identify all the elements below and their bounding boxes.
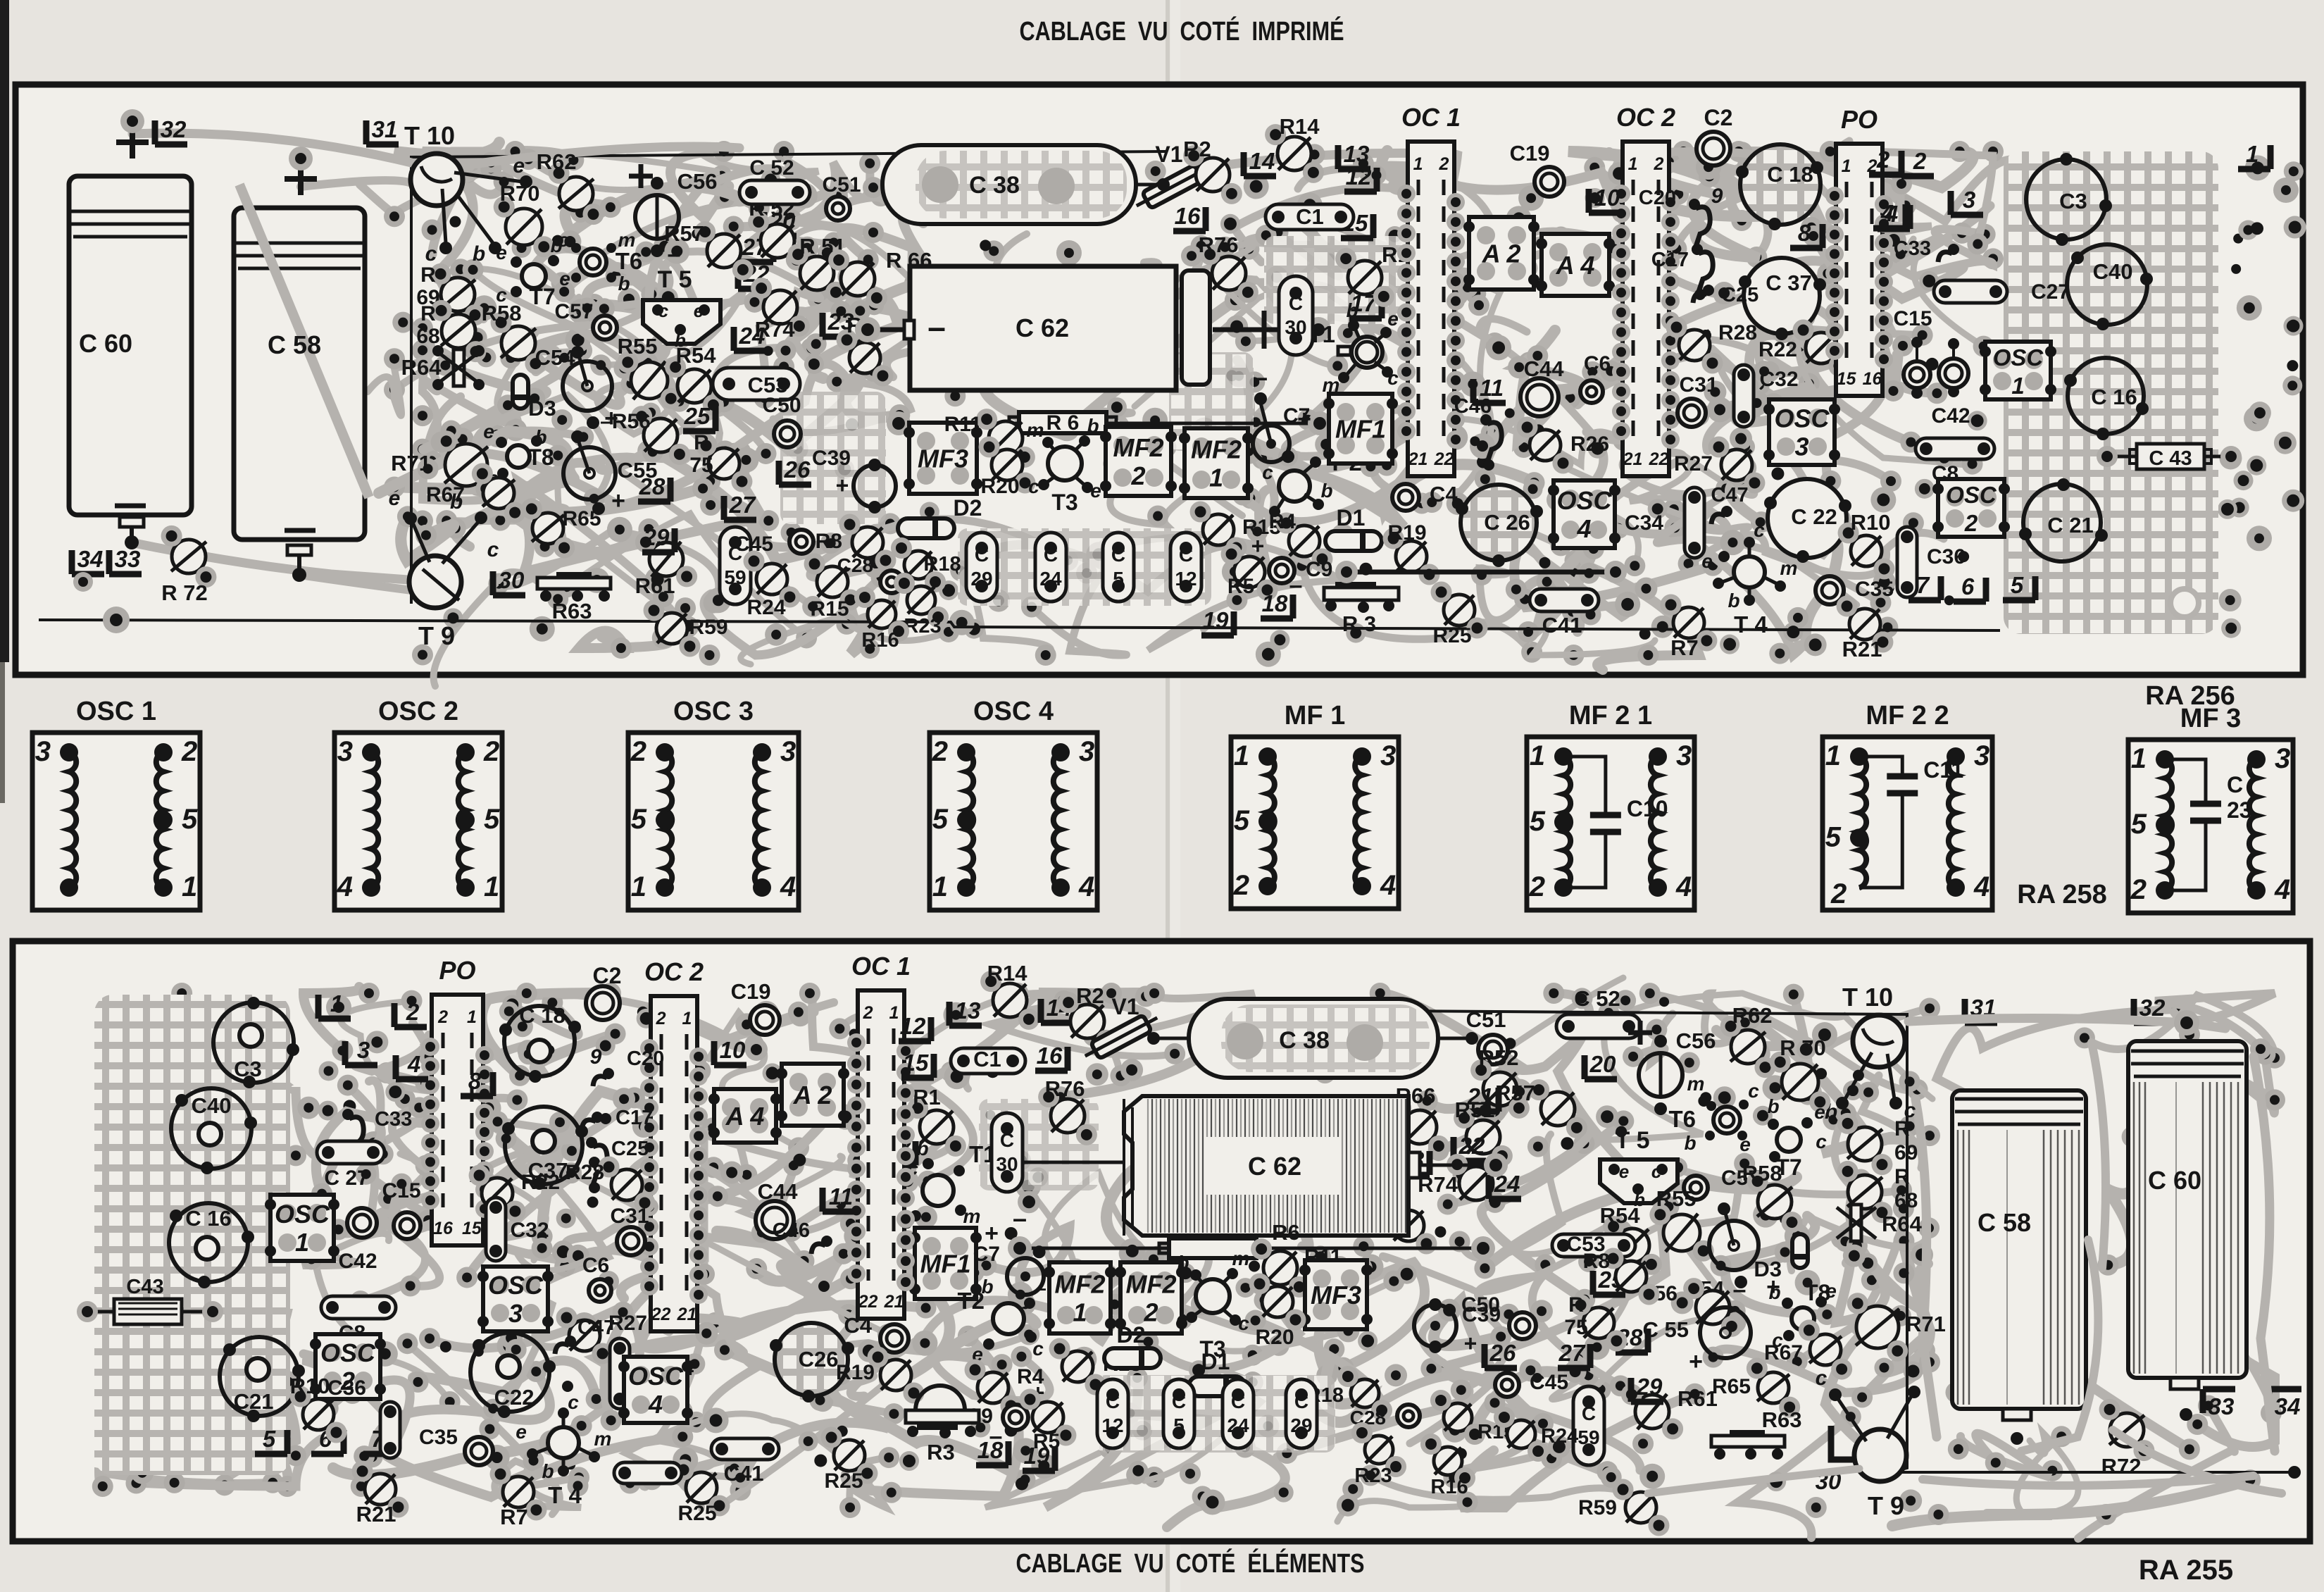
svg-text:29: 29	[1636, 1374, 1663, 1400]
capacitor C16 bottom	[169, 1203, 248, 1282]
pad	[781, 209, 802, 230]
pad	[839, 1497, 861, 1518]
pad	[1226, 421, 1247, 442]
capacitor C53	[713, 368, 800, 400]
capacitor C42 bottom	[347, 1208, 377, 1238]
wire	[1554, 993, 1668, 1207]
wire	[812, 993, 973, 1181]
pad	[1442, 425, 1468, 450]
pad	[253, 1162, 274, 1183]
terminal tab 12	[1344, 168, 1377, 192]
svg-text:+: +	[1464, 1331, 1478, 1356]
wire	[970, 578, 1051, 655]
diode D1 bottom	[1189, 1376, 1245, 1396]
pad	[1144, 983, 1165, 1004]
wire	[366, 1174, 712, 1262]
diode D2 bottom	[1104, 1348, 1161, 1368]
resistor R58	[501, 326, 535, 360]
pad	[274, 1264, 284, 1274]
pad	[1411, 492, 1432, 514]
wire	[734, 163, 875, 231]
pad	[1766, 1472, 1786, 1491]
oscillator module OSC3 bottom	[483, 1267, 548, 1331]
capacitor C7	[1253, 425, 1289, 462]
pad	[1518, 185, 1544, 211]
pad	[871, 1088, 897, 1114]
pad	[422, 219, 443, 240]
pad	[789, 1005, 811, 1026]
wire	[851, 560, 894, 654]
svg-text:C31: C31	[610, 1205, 649, 1228]
svg-text:T 5: T 5	[657, 266, 692, 293]
svg-text:4: 4	[648, 1390, 663, 1419]
svg-text:m: m	[963, 1205, 981, 1227]
pad	[713, 391, 735, 412]
pad	[319, 1061, 339, 1081]
wire	[1106, 1155, 1308, 1262]
pad	[880, 1292, 902, 1314]
pad	[1648, 499, 1668, 518]
pad	[944, 385, 966, 406]
terminal tab 7c	[363, 1430, 396, 1454]
pad	[1457, 1491, 1478, 1512]
capacitor C55 bottom	[1700, 1307, 1751, 1358]
wire	[393, 1139, 580, 1231]
pad	[1585, 1335, 1610, 1360]
svg-text:C36: C36	[327, 1376, 366, 1400]
svg-text:2: 2	[1130, 461, 1145, 490]
pad	[714, 1339, 735, 1360]
pad	[638, 518, 659, 540]
pad	[1011, 1346, 1032, 1367]
wire	[1618, 993, 1932, 1099]
capacitor C24 capsule	[1035, 533, 1066, 602]
pad	[1698, 1095, 1709, 1107]
wire	[1850, 1180, 1922, 1311]
pad	[645, 567, 670, 592]
pad	[566, 577, 577, 588]
wire	[310, 1086, 382, 1260]
capacitor C56	[635, 195, 679, 239]
pad	[1383, 1271, 1404, 1292]
pad	[1782, 275, 1802, 295]
capacitor C54	[563, 361, 612, 411]
svg-text:3: 3	[780, 736, 796, 767]
svg-text:68: 68	[1894, 1189, 1918, 1212]
pad	[2283, 316, 2303, 336]
pad	[532, 1226, 553, 1247]
pad	[496, 1128, 517, 1149]
svg-text:C34: C34	[1625, 511, 1663, 535]
wire	[725, 1350, 1025, 1479]
terminal tab 13	[1338, 145, 1370, 169]
terminal tab 7	[1908, 576, 1941, 600]
pad	[1713, 1086, 1736, 1109]
pad	[1332, 523, 1354, 546]
svg-text:22: 22	[1649, 449, 1669, 469]
capacitor C38 bottom	[1189, 999, 1438, 1078]
wire	[473, 270, 679, 402]
wire	[170, 1314, 288, 1486]
pad	[1539, 240, 1558, 259]
pad	[1975, 224, 1996, 245]
resistor R74 bottom	[1459, 1167, 1493, 1200]
svg-text:2: 2	[932, 736, 948, 767]
pad	[801, 338, 822, 359]
capacitor C18 bottom	[504, 1006, 575, 1076]
pad	[235, 1229, 255, 1249]
resistor R23	[907, 586, 935, 614]
svg-text:OC 2: OC 2	[644, 957, 704, 986]
pad	[749, 197, 770, 218]
pad	[1751, 511, 1772, 533]
pad	[1608, 1014, 1629, 1035]
pad	[1893, 1198, 1914, 1219]
svg-text:5: 5	[1173, 1414, 1185, 1436]
wire	[500, 451, 686, 521]
pad	[311, 1183, 332, 1205]
pad	[480, 152, 501, 173]
terminal tab 22b	[1454, 1137, 1486, 1161]
capacitor C4 bottom	[880, 1324, 908, 1352]
pad	[468, 476, 487, 496]
svg-text:C20: C20	[627, 1047, 664, 1070]
pad	[456, 1267, 477, 1288]
pad	[512, 1016, 533, 1037]
wire	[506, 1138, 608, 1299]
wire	[2239, 1055, 2275, 1114]
wire	[1513, 1219, 1634, 1359]
pad	[1563, 497, 1588, 523]
pad	[266, 1019, 276, 1028]
pad	[1385, 226, 1405, 246]
wire	[1429, 237, 1561, 326]
svg-text:8: 8	[468, 1068, 482, 1094]
svg-text:C50: C50	[762, 394, 801, 417]
pad	[686, 1412, 707, 1433]
svg-text:C9: C9	[1306, 558, 1332, 581]
wire	[1107, 537, 1342, 650]
pad	[1982, 248, 2004, 269]
svg-text:1: 1	[2011, 373, 2024, 399]
pad	[464, 462, 489, 487]
pad	[949, 610, 975, 635]
pad	[542, 992, 563, 1013]
pad	[1725, 1312, 1746, 1333]
pad	[600, 983, 621, 1004]
svg-text:C28: C28	[837, 554, 873, 576]
terminal tab 11c	[823, 1188, 855, 1212]
pad	[1958, 551, 1969, 562]
pad	[1588, 439, 1608, 459]
pad	[2096, 1504, 2117, 1525]
wire	[449, 339, 582, 444]
wire	[1522, 230, 1617, 268]
wire	[1813, 236, 1888, 508]
wire	[1647, 163, 1758, 220]
capacitor C9 bottom	[1003, 1405, 1028, 1430]
pad	[1127, 1367, 1148, 1388]
pad	[1744, 390, 1770, 416]
pad	[694, 1264, 715, 1285]
pad	[1658, 151, 1680, 173]
transistor T6	[580, 249, 606, 275]
pad	[1578, 563, 1599, 584]
pad	[635, 242, 656, 263]
capacitor C62 bottom (element side)	[1124, 1096, 1408, 1236]
svg-text:OSC 4: OSC 4	[973, 697, 1054, 726]
pad	[1508, 356, 1530, 378]
pad	[1085, 1296, 1096, 1307]
svg-text:C22: C22	[494, 1385, 535, 1410]
pad	[1477, 456, 1489, 468]
pad	[1728, 141, 1749, 162]
pad	[285, 1206, 306, 1227]
OSC 3 primary coil	[665, 752, 672, 888]
svg-text:30: 30	[996, 1153, 1018, 1175]
svg-text:b: b	[473, 242, 485, 266]
pad	[2238, 220, 2258, 240]
pad	[1120, 1059, 1143, 1081]
pad	[558, 230, 581, 253]
ground-plane grid small center	[1096, 1375, 1335, 1453]
pad	[497, 394, 518, 416]
pad	[1297, 192, 1323, 218]
wire	[1801, 194, 1993, 277]
svg-text:C40: C40	[192, 1093, 232, 1118]
pad	[551, 272, 573, 293]
svg-text:69: 69	[1894, 1141, 1918, 1164]
pad	[547, 445, 568, 466]
svg-text:C56: C56	[677, 169, 718, 194]
resistor R52 bottom	[1483, 1072, 1517, 1106]
wire	[1790, 1217, 1929, 1271]
svg-text:R11: R11	[944, 413, 982, 436]
svg-text:19: 19	[1203, 607, 1229, 633]
pad	[1574, 1289, 1595, 1310]
svg-text:26: 26	[784, 456, 811, 483]
svg-text:CABLAGE VU COTÉ IMPRIMÉ: CABLAGE VU COTÉ IMPRIMÉ	[1020, 15, 1344, 46]
pad	[1537, 571, 1558, 592]
pad	[547, 1426, 568, 1448]
pad	[1880, 471, 1901, 492]
pad	[1358, 161, 1380, 182]
svg-text:m: m	[618, 229, 636, 251]
terminal tab 30	[493, 571, 525, 595]
svg-text:D1: D1	[1201, 1349, 1230, 1374]
wire	[1742, 151, 1973, 187]
pad	[791, 459, 811, 478]
wire	[1224, 1281, 1394, 1351]
pad	[1135, 985, 1156, 1007]
svg-text:e: e	[483, 421, 494, 442]
wire	[1299, 216, 1500, 433]
pad	[2261, 1403, 2282, 1424]
pad	[1854, 1445, 1875, 1466]
svg-text:22: 22	[1458, 1133, 1485, 1159]
svg-text:1: 1	[1842, 156, 1851, 176]
svg-text:OSC: OSC	[628, 1362, 684, 1391]
pad	[416, 1155, 437, 1176]
wire	[1633, 1014, 1673, 1063]
pad	[1154, 370, 1175, 391]
pad	[1617, 1176, 1627, 1186]
pad	[1659, 997, 1669, 1007]
pad	[1528, 1136, 1549, 1157]
svg-text:CABLAGE VU COTÉ ÉLÉMENTS: CABLAGE VU COTÉ ÉLÉMENTS	[1016, 1548, 1365, 1579]
svg-text:e: e	[1619, 1161, 1629, 1182]
svg-text:75: 75	[689, 454, 713, 477]
wire	[1798, 317, 1970, 466]
pad	[723, 443, 744, 464]
pad	[765, 623, 787, 646]
wire	[579, 631, 669, 649]
svg-text:33: 33	[115, 546, 141, 572]
pad	[2219, 589, 2242, 611]
wire	[792, 533, 873, 633]
capacitor C37	[1744, 258, 1820, 334]
pad	[654, 235, 676, 258]
pad	[436, 510, 457, 531]
svg-text:+: +	[611, 487, 625, 514]
pad	[277, 1476, 298, 1497]
pad	[1619, 454, 1640, 475]
pad	[1750, 148, 1771, 169]
wire	[1568, 151, 1780, 216]
OSC 4 secondary coil	[1054, 752, 1061, 888]
pad	[642, 441, 663, 462]
IF transformer module MF3	[909, 423, 977, 494]
pad	[641, 284, 662, 305]
terminal tab 4d	[1951, 191, 1983, 215]
pad	[1501, 527, 1523, 548]
pad	[1468, 294, 1489, 316]
wire	[1563, 432, 1727, 534]
pad	[1256, 1414, 1279, 1437]
wire	[2107, 1137, 2137, 1265]
svg-text:m: m	[1780, 557, 1798, 579]
wire	[1884, 1241, 1930, 1373]
svg-text:4: 4	[1576, 514, 1591, 543]
pad	[1071, 1347, 1097, 1372]
pad	[2247, 526, 2272, 551]
pad	[1881, 228, 1906, 253]
pad	[1823, 1109, 1844, 1130]
svg-text:C: C	[1289, 292, 1303, 314]
diode D1	[1325, 531, 1382, 551]
resistor R76	[1212, 256, 1246, 290]
svg-text:12: 12	[900, 1013, 926, 1039]
svg-text:–: –	[1254, 363, 1268, 392]
capacitor C2	[1697, 132, 1730, 166]
svg-text:R70: R70	[500, 181, 540, 206]
pad	[827, 186, 848, 207]
oscillator module OSC4	[1554, 480, 1615, 548]
pad	[485, 1445, 510, 1470]
pad	[159, 1449, 170, 1460]
pad	[1573, 1133, 1594, 1154]
terminal tab 2c	[394, 1003, 427, 1027]
resistor R67 bottom	[1810, 1334, 1841, 1365]
svg-text:C40: C40	[2093, 259, 2133, 284]
svg-text:C2: C2	[593, 963, 622, 988]
wire	[1730, 479, 1838, 646]
pad	[2234, 471, 2254, 490]
wire	[1797, 333, 1911, 442]
pad	[95, 1107, 118, 1129]
wire	[1247, 232, 1339, 277]
pad	[992, 1354, 1013, 1375]
connector OC2 bottom	[651, 996, 697, 1331]
pad	[262, 1472, 283, 1493]
pad	[895, 1157, 916, 1179]
wire	[1144, 1367, 1261, 1481]
pad	[418, 458, 439, 479]
pad	[331, 1351, 352, 1372]
pad	[518, 149, 539, 170]
svg-text:C42: C42	[338, 1250, 377, 1273]
wire	[1303, 1349, 1370, 1422]
pad	[573, 426, 594, 447]
svg-text:4: 4	[2274, 874, 2290, 905]
pad	[1337, 1319, 1359, 1342]
pad	[1785, 1223, 1810, 1248]
svg-text:MF3: MF3	[1311, 1281, 1361, 1310]
pad	[2239, 1469, 2261, 1491]
pad	[1899, 1116, 1920, 1137]
capacitor C39 bottom	[1414, 1305, 1456, 1347]
resistor R24	[756, 564, 787, 595]
svg-text:29: 29	[643, 524, 670, 550]
pad	[1968, 411, 1987, 430]
pad	[1238, 239, 1259, 260]
module A4 bottom	[714, 1089, 776, 1143]
capacitor C6 bottom	[589, 1279, 611, 1302]
svg-text:D1: D1	[1337, 505, 1366, 530]
svg-text:R: R	[1568, 1293, 1584, 1317]
wire	[99, 1472, 273, 1486]
wire	[1045, 1378, 1208, 1507]
pad	[590, 354, 611, 375]
pad	[1484, 332, 1505, 354]
pad	[354, 1445, 375, 1467]
pad	[2171, 999, 2192, 1020]
wire	[658, 386, 720, 491]
pad	[2218, 499, 2237, 519]
svg-text:MF 2 2: MF 2 2	[1866, 701, 1949, 730]
pad	[1801, 217, 1822, 238]
resistor R59	[656, 613, 687, 644]
pad	[1337, 323, 1358, 344]
svg-text:4: 4	[407, 1051, 420, 1077]
terminal tab 34	[2269, 1389, 2301, 1413]
pad	[421, 450, 442, 471]
pad	[1903, 512, 1924, 533]
wire	[1858, 178, 1901, 228]
pad	[1064, 1259, 1087, 1281]
OSC 1 primary coil	[69, 752, 76, 888]
capacitor C30	[1279, 276, 1313, 355]
capacitor C39	[854, 465, 896, 507]
pad	[277, 1371, 299, 1392]
pad	[484, 1229, 505, 1250]
wire	[423, 248, 651, 449]
pad	[745, 1038, 768, 1061]
wire	[567, 514, 806, 638]
svg-text:+: +	[836, 473, 849, 498]
pad	[2284, 161, 2304, 181]
pad	[1877, 178, 1898, 199]
